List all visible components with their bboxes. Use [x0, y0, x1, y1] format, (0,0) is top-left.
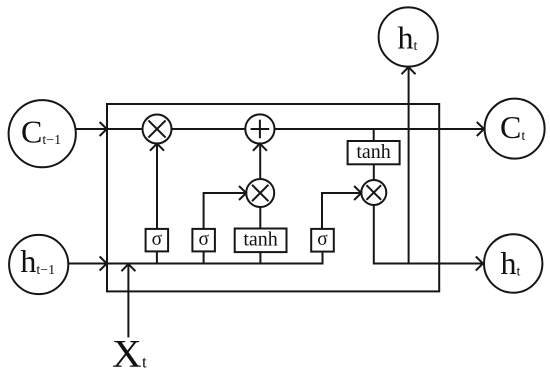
- svg-text:σ: σ: [152, 229, 163, 250]
- multiply gate 2: [246, 179, 274, 207]
- svg-text:σ: σ: [317, 229, 328, 250]
- arrowhead sigma2 into multiply gate 2: [239, 186, 246, 200]
- plus gate: [245, 114, 274, 143]
- wire sigma3 elbow to multiply gate 3: [322, 193, 361, 230]
- sigma box 1: [146, 229, 169, 252]
- wire branch up to node h_t top: [408, 67, 410, 264]
- arrowhead sigma1 into multiply gate 1: [150, 144, 164, 151]
- wire sigma2 elbow to multiply gate 2: [204, 193, 247, 230]
- multiply gate 1: [143, 115, 172, 144]
- wire C line stub down to tanh2: [373, 129, 375, 142]
- node h_t-1: [9, 235, 68, 294]
- wire input X_t vertical: [127, 264, 129, 337]
- wire tanh1 up to multiply gate 2: [259, 207, 261, 229]
- svg-text:tanh: tanh: [243, 229, 277, 251]
- arrowhead h line into box: [100, 257, 107, 271]
- sigma box 3: [311, 229, 334, 252]
- svg-text:X: X: [112, 333, 142, 376]
- tanh box right: [348, 141, 400, 165]
- svg-text:t: t: [142, 353, 147, 372]
- tanh box bottom: [235, 229, 287, 253]
- wire h line horizontal: [68, 263, 323, 265]
- node C_t-1: [9, 100, 76, 167]
- multiply gate 3: [361, 180, 386, 205]
- arrowhead into node h_t bottom: [476, 257, 483, 271]
- wire sigma1 stub to h line: [156, 251, 158, 264]
- arrowhead C line into box: [100, 122, 107, 136]
- wire sigma3 stub to h line: [322, 251, 324, 264]
- node h_t bottom: [484, 234, 542, 292]
- wire tanh1 stub to h line: [259, 252, 261, 264]
- sigma box 2: [192, 229, 215, 252]
- svg-text:tanh: tanh: [356, 141, 390, 163]
- wire tanh2 down to multiply gate 3: [373, 164, 375, 180]
- wire multiply gate 3 output elbow to node h_t bottom: [374, 205, 483, 264]
- arrowhead X_t into h line: [121, 264, 135, 271]
- arrowhead into node C_t: [477, 122, 484, 136]
- wire C line horizontal: [76, 128, 484, 130]
- arrowhead multiply gate 2 into plus gate: [253, 144, 267, 151]
- svg-text:σ: σ: [198, 229, 209, 250]
- node h_t top: [379, 7, 438, 66]
- LSTM cell box: [107, 104, 439, 291]
- wire multiply gate 2 to plus gate: [259, 144, 261, 180]
- wire sigma1 to multiply gate 1: [156, 144, 158, 230]
- node C_t: [485, 99, 545, 159]
- wire sigma2 stub to h line: [203, 251, 205, 264]
- arrowhead sigma3 into multiply gate 3: [354, 186, 361, 200]
- arrowhead into node h_t top: [402, 67, 416, 74]
